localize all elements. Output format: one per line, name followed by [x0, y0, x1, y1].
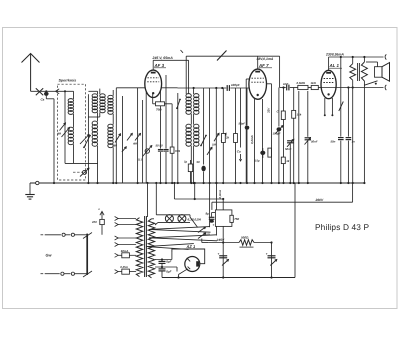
wire: [294, 183, 296, 278]
resistor: [277, 110, 286, 120]
svg-text:8µF: 8µF: [166, 270, 171, 274]
wire: [203, 88, 205, 165]
node Ca AVC: [237, 88, 242, 161]
wire: [270, 241, 272, 277]
capacitor Ca: [44, 90, 54, 99]
svg-text:70Ω: 70Ω: [156, 108, 162, 112]
capacitor 8uF: [206, 212, 216, 228]
gang link line: [73, 171, 83, 173]
tap fuse 0,25A: [115, 265, 137, 274]
svg-text:AZ 1: AZ 1: [186, 244, 196, 249]
wire to chassis: [53, 99, 55, 183]
svg-text:750: 750: [234, 217, 239, 221]
wave-trap box (Sperrkreis): [58, 84, 86, 180]
svg-text:AF 3: AF 3: [154, 63, 165, 68]
svg-text:Ca: Ca: [41, 98, 45, 102]
chassis bus: [30, 182, 365, 184]
resistor 15k: [292, 88, 302, 184]
mains wire bottom: [41, 272, 88, 275]
svg-text:Philips D 43 P: Philips D 43 P: [315, 222, 370, 232]
svg-text:50nF: 50nF: [285, 147, 292, 151]
wire: [177, 93, 179, 183]
contact C top: [385, 54, 386, 59]
svg-text:1nF: 1nF: [283, 82, 289, 86]
antenna: [22, 54, 40, 92]
svg-text:+: +: [213, 223, 215, 227]
svg-text:0,1: 0,1: [138, 158, 142, 162]
wire: [122, 96, 124, 183]
rheostat arrows: [198, 227, 211, 239]
svg-text:+: +: [266, 252, 268, 256]
svg-text:50nF: 50nF: [311, 140, 318, 144]
wire: [279, 56, 281, 87]
label 0,2mA: [250, 135, 254, 144]
wire lamp top: [152, 215, 191, 219]
coil L4b: [108, 114, 113, 183]
coil L2a: [88, 91, 97, 112]
switch S2: [176, 99, 181, 110]
speaker lead: [366, 62, 378, 67]
label 230V 36mA: [325, 53, 344, 57]
wire: [145, 92, 147, 183]
svg-text:3M: 3M: [113, 144, 118, 148]
wire: [340, 57, 342, 137]
wire: [155, 183, 157, 215]
svg-text:4M: 4M: [132, 142, 138, 146]
svg-text:0,25A: 0,25A: [120, 265, 127, 269]
capacitor: [197, 160, 206, 183]
capacitor 8uF a: [159, 258, 172, 267]
tube AL1: [321, 70, 336, 98]
wire: [216, 183, 218, 236]
wire: [190, 215, 198, 228]
wire: [137, 88, 139, 183]
wire 260V riser: [352, 183, 354, 202]
trimmer C1: [56, 123, 70, 137]
switch slash: [217, 51, 227, 61]
coil L1b: [68, 114, 73, 163]
dial lamp 2: [178, 215, 186, 223]
capacitor 50nF: [305, 91, 318, 183]
trimmer C5: [122, 147, 127, 152]
selector tap 220: [91, 207, 104, 235]
svg-text:50 50: 50 50: [156, 144, 163, 148]
svg-text:48V,0,1mA: 48V,0,1mA: [256, 57, 274, 61]
wire AF7 top cap: [257, 56, 259, 69]
transformer primary: [136, 218, 142, 277]
switch slash: [339, 102, 344, 112]
tap fuse 60mA: [115, 249, 137, 258]
output transformer primary: [361, 57, 367, 85]
trimmer C4: [132, 133, 141, 145]
heater loop 1: [149, 227, 211, 233]
svg-text:245 V, 65mA: 245 V, 65mA: [152, 56, 174, 60]
svg-text:100pF: 100pF: [273, 132, 281, 136]
wire: [282, 86, 284, 183]
band switch S1: [83, 135, 91, 149]
output switch: [364, 81, 377, 85]
wire: [142, 100, 144, 183]
coil L6b: [194, 114, 199, 183]
svg-text:220: 220: [91, 220, 97, 224]
svg-text:+: +: [218, 252, 220, 256]
switch S3: [200, 135, 207, 147]
wire: [194, 183, 196, 200]
svg-text:0,5MΩ: 0,5MΩ: [297, 81, 306, 85]
svg-text:6,3V,0,5A: 6,3V,0,5A: [188, 218, 202, 222]
resistor 0,5M: [297, 81, 309, 90]
label Sperrkreis: [59, 79, 77, 83]
speaker: [364, 62, 389, 81]
svg-text:8µF: 8µF: [166, 260, 171, 264]
wire: [147, 183, 149, 217]
svg-text:50pF: 50pF: [239, 122, 246, 126]
antenna connector X: [36, 88, 43, 95]
contact C bottom: [385, 85, 386, 90]
svg-text:2k: 2k: [225, 136, 230, 140]
svg-text:AF 7: AF 7: [258, 63, 269, 68]
gang arrow: [80, 135, 89, 145]
svg-text:50n: 50n: [331, 140, 336, 144]
wire trap bottom: [65, 162, 98, 164]
title text: [315, 222, 370, 232]
wire 199: [174, 198, 224, 200]
svg-text:260V: 260V: [315, 198, 325, 202]
wire: [173, 183, 175, 199]
AF7 legs: [255, 99, 263, 183]
wire: [215, 88, 217, 183]
svg-text:60mA: 60mA: [121, 249, 129, 253]
rectifier box: [172, 249, 205, 264]
transformer secondary: [148, 219, 154, 278]
label AZ1: [186, 244, 200, 249]
wire AF3 anode: [162, 87, 178, 89]
svg-text:245V: 245V: [216, 238, 226, 242]
wire AZ1 in2: [155, 267, 177, 272]
plug arrow to wave trap: [56, 89, 60, 94]
label 6,3V: [188, 218, 202, 222]
AF7 grid box: [246, 79, 249, 183]
ground: [25, 183, 34, 199]
filter choke box: [215, 210, 232, 227]
coil L5a: [186, 94, 191, 115]
AF7 screen wire: [266, 84, 271, 183]
resistor 500: [239, 235, 254, 247]
capacitor 50nF: [285, 139, 294, 183]
trimmer C7: [212, 133, 226, 146]
label 245V: [216, 238, 226, 242]
tap arrows: [115, 217, 137, 247]
trimmer C2: [113, 134, 121, 148]
svg-text:1k: 1k: [286, 159, 290, 163]
trimmer C3: [127, 133, 132, 140]
label 31V: [266, 107, 270, 113]
capacitor 100pF: [273, 88, 284, 184]
resistor 70ohm: [170, 104, 181, 183]
svg-text:8µ: 8µ: [206, 212, 210, 216]
svg-text:Gw: Gw: [46, 254, 53, 258]
wire AF3 grid in: [116, 87, 145, 89]
wire: [222, 226, 224, 277]
wire AL1 grid: [280, 87, 322, 89]
svg-text:500Ω: 500Ω: [241, 235, 249, 239]
capacitor electrolytic 1: [218, 252, 229, 266]
coil L3a: [88, 89, 105, 117]
transformer core: [145, 216, 147, 277]
coil L4a: [108, 90, 113, 114]
svg-text:1kΩ: 1kΩ: [311, 81, 317, 85]
wire top HT: [186, 55, 279, 57]
junction dots bus: [53, 182, 366, 184]
svg-text:AL 1: AL 1: [329, 63, 340, 68]
wire: [363, 85, 365, 184]
capacitor 50pF: [239, 88, 250, 183]
wire: [209, 88, 211, 183]
wire antenna feed: [31, 90, 74, 92]
svg-text:50: 50: [197, 160, 201, 164]
svg-text:100pF: 100pF: [231, 83, 240, 87]
wire AF3 grid top: [153, 60, 188, 70]
tuning capacitor: [138, 146, 152, 162]
wire trap left: [64, 90, 66, 163]
wire AZ1 in1: [155, 252, 172, 260]
wire grid AF7: [178, 87, 249, 89]
svg-text:40Ω: 40Ω: [204, 233, 211, 237]
trimmer C6: [214, 133, 219, 141]
resistor 2k: [222, 88, 230, 183]
tick: [181, 50, 184, 53]
voltage selector: [83, 233, 92, 278]
psu bus: [162, 276, 295, 278]
wire AZ1 out: [179, 269, 187, 277]
resistor 750: [230, 215, 240, 222]
svg-text:0,2mA: 0,2mA: [250, 135, 254, 144]
wire 260V: [212, 202, 353, 210]
field coil: [350, 57, 356, 88]
capacitor 1nF: [283, 82, 289, 91]
output transformer core: [358, 63, 360, 81]
heater loop 2: [149, 235, 217, 241]
wire: [202, 239, 209, 243]
bus connector: [36, 181, 39, 184]
wire: [186, 56, 188, 94]
tube AF7: [249, 69, 267, 99]
wire: [352, 86, 354, 183]
svg-text:Sperrkreis: Sperrkreis: [59, 79, 77, 83]
wire AL1 top cap: [328, 57, 330, 71]
coil L5b: [186, 114, 191, 183]
label AL1: [329, 63, 343, 68]
svg-text:0,5µ: 0,5µ: [254, 159, 260, 163]
label AF3: [154, 63, 167, 68]
capacitor 50pF pair: [156, 75, 169, 183]
wire: [222, 199, 224, 210]
svg-text:L: L: [99, 207, 101, 211]
wire 245V: [208, 242, 271, 244]
tuning gang indicator: [80, 168, 89, 176]
mains wire top: [41, 233, 88, 236]
capacitor: [254, 148, 265, 163]
resistor: [184, 160, 193, 184]
svg-text:1µ: 1µ: [184, 160, 188, 164]
wire: [87, 94, 89, 183]
capacitor 100pF: [215, 83, 240, 91]
wire anode line: [321, 87, 383, 89]
AL1 legs: [324, 98, 334, 116]
resistor 1k: [281, 157, 289, 164]
capacitor electrolytic 2: [266, 252, 277, 266]
svg-text:4M: 4M: [56, 132, 62, 136]
capacitor 1nF: [346, 86, 355, 183]
wire: [209, 183, 211, 227]
tube AF3: [145, 70, 162, 97]
wire HT top right: [329, 56, 384, 58]
dial lamp 1: [165, 215, 173, 223]
label AF7: [258, 63, 272, 68]
svg-text:Ca: Ca: [237, 150, 241, 154]
label 48V 0,1mA: [256, 57, 274, 61]
wire: [298, 91, 300, 183]
resistor 1k: [311, 81, 319, 90]
label 260V: [315, 198, 325, 202]
coil L1a: [68, 91, 73, 114]
AF3 cathode resistor 70ohm: [153, 93, 172, 111]
trimmer C8: [207, 147, 212, 155]
coil L6a: [193, 87, 200, 114]
label Gw: [46, 254, 53, 258]
svg-text:1n: 1n: [352, 140, 356, 144]
svg-text:1M: 1M: [212, 143, 217, 147]
wire lamp bottom: [155, 222, 190, 225]
resistor: [268, 148, 272, 157]
svg-text:230V,36mA: 230V,36mA: [325, 53, 344, 57]
label 245V 65mA: [152, 56, 174, 60]
label 0,3mA: [218, 190, 222, 198]
label Ca: [41, 98, 45, 102]
coil L2b: [92, 112, 97, 183]
svg-text:0,3mA: 0,3mA: [218, 190, 222, 198]
capacitor 8uF b: [159, 266, 172, 278]
resistor: [234, 88, 238, 183]
wire: [115, 88, 117, 183]
tube AZ1: [185, 257, 200, 272]
capacitor 50nF: [331, 138, 344, 183]
heater loop 3: [147, 244, 194, 250]
